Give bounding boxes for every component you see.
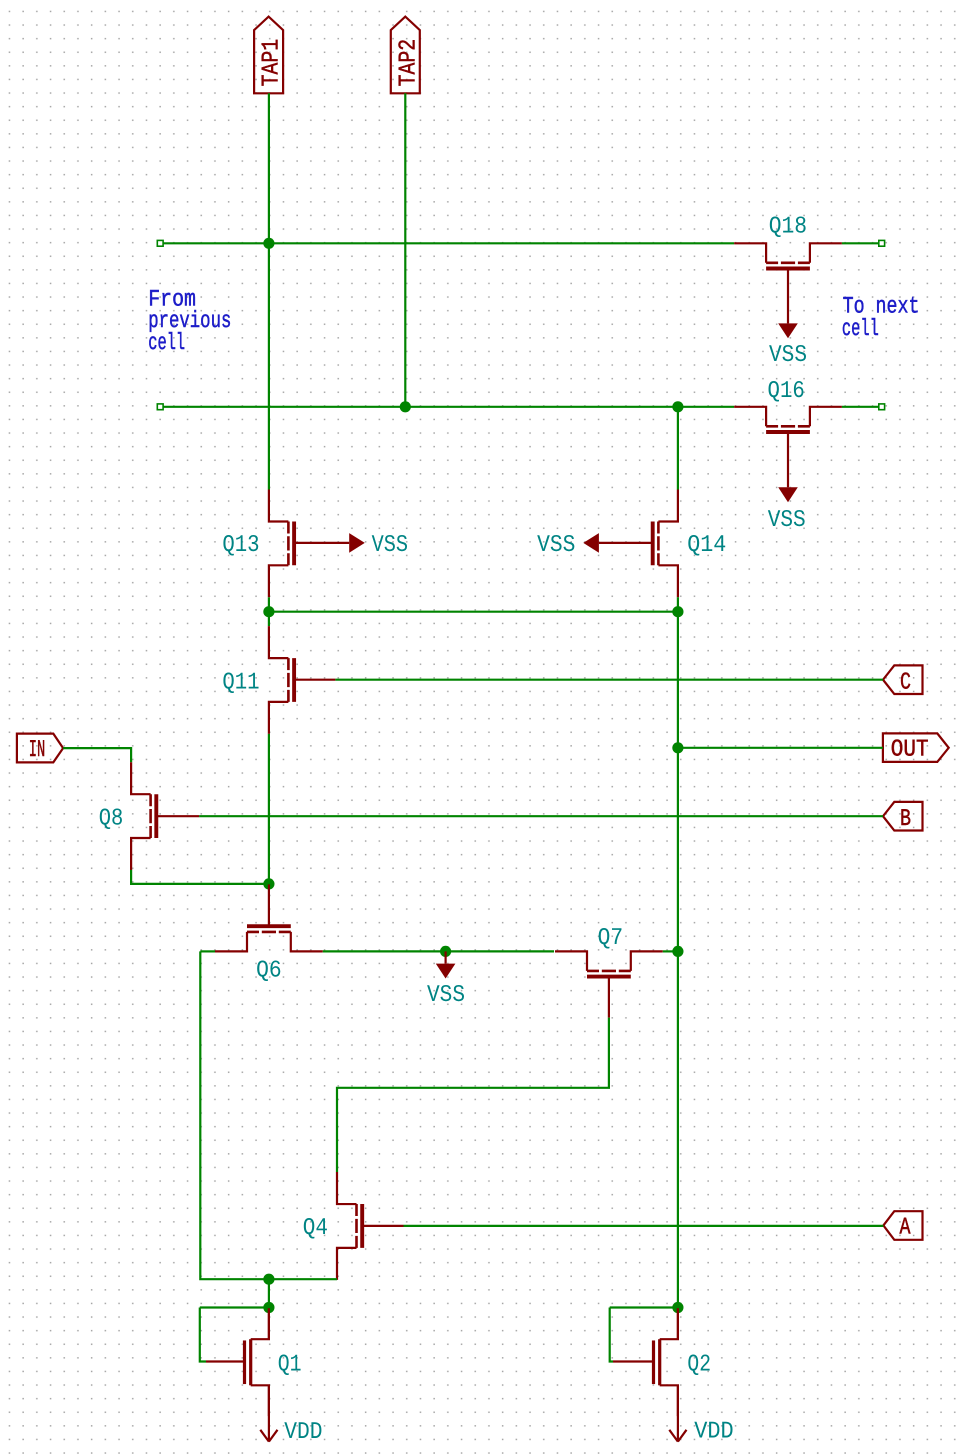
- wire TAP1 to row A: [268, 93, 270, 243]
- port TAP1: [254, 17, 286, 94]
- junction VSS tap on Q6-Q7 wire: [440, 946, 451, 957]
- drain pin of Q1: [268, 1308, 270, 1339]
- transistor Q2: [654, 1308, 678, 1416]
- unconnected end row B left: [157, 404, 163, 410]
- svg-text:Q2: Q2: [687, 1352, 711, 1379]
- wire Q7 right stub to right column: [663, 950, 678, 952]
- svg-text:VDD: VDD: [694, 1419, 733, 1446]
- svg-text:Q13: Q13: [222, 532, 259, 559]
- power VSS of Q16: [768, 432, 806, 534]
- svg-text:VDD: VDD: [284, 1419, 322, 1446]
- svg-text:A: A: [900, 1215, 911, 1242]
- port TAP2: [391, 17, 423, 94]
- port A: [883, 1211, 922, 1241]
- wire middle wire: [269, 611, 678, 613]
- wire left column Q13 to Q11: [268, 597, 270, 626]
- gate pin of Q7: [608, 977, 610, 1018]
- transistor Q11: [269, 626, 294, 734]
- svg-text:cell: cell: [842, 316, 879, 343]
- junction row B / right column: [672, 401, 683, 412]
- svg-text:IN: IN: [29, 737, 45, 764]
- wire OUT row wire: [678, 747, 883, 749]
- power VDD of Q2: [669, 1385, 733, 1445]
- wire row B right segment: [842, 406, 879, 408]
- junction rail 2 / Q2 drain: [672, 1302, 683, 1313]
- power VSS of Q14: [537, 532, 652, 559]
- gate pin of Q4: [363, 1225, 404, 1227]
- transistor Q7: [555, 951, 663, 976]
- svg-text:VSS: VSS: [372, 532, 408, 559]
- junction Q8 bottom / left column: [263, 878, 274, 889]
- transistor Q18: [734, 243, 842, 268]
- svg-text:TAP1: TAP1: [259, 39, 286, 87]
- wire wire Q6 to Q7: [323, 950, 554, 952]
- svg-text:C: C: [900, 670, 911, 697]
- wire right column row B to Q14: [677, 407, 679, 490]
- svg-text:Q14: Q14: [687, 532, 726, 559]
- wire row A left segment: [163, 242, 734, 244]
- port IN: [17, 734, 63, 764]
- transistor Q4: [337, 1172, 362, 1280]
- junction right/middle wire: [672, 606, 683, 617]
- wire left column row A to Q13: [268, 243, 270, 489]
- wire connector rail1 to rail2: [268, 1279, 270, 1307]
- drain pin of Q2: [677, 1308, 679, 1339]
- wire Q8 gate to port B: [199, 815, 883, 817]
- wire TAP2 to row B: [404, 93, 406, 407]
- svg-text:cell: cell: [148, 330, 185, 357]
- power VSS of Q18: [769, 269, 807, 370]
- junction TAP1/row A: [263, 238, 274, 249]
- svg-text:Q1: Q1: [278, 1351, 302, 1378]
- wire Q4 gate to port A: [404, 1225, 884, 1227]
- wire left column Q11 to Q6 gate: [268, 734, 270, 884]
- wire row A right segment: [842, 242, 879, 244]
- svg-text:Q7: Q7: [598, 925, 624, 952]
- port OUT: [883, 733, 949, 763]
- junction TAP2/row B: [400, 401, 411, 412]
- transistor Q6: [215, 926, 323, 951]
- junction rail 2 / Q1 drain: [263, 1302, 274, 1313]
- junction Q7 row / right column: [672, 946, 683, 957]
- transistor Q1: [245, 1308, 269, 1416]
- svg-text:VSS: VSS: [769, 342, 807, 369]
- wire long left wire Q6 to rail: [200, 951, 337, 1279]
- gate pin of Q2: [613, 1360, 652, 1362]
- svg-text:Q16: Q16: [768, 378, 805, 405]
- unconnected end row B right: [879, 404, 885, 410]
- svg-text:TAP2: TAP2: [395, 39, 422, 87]
- svg-text:B: B: [900, 806, 911, 833]
- svg-text:Q8: Q8: [99, 806, 124, 833]
- note To next cell: [842, 293, 920, 342]
- gate pin of Q11: [294, 679, 335, 681]
- svg-text:Q18: Q18: [769, 214, 807, 241]
- wire row B left segment: [163, 406, 734, 408]
- power VSS below Q6/Q7 wire: [427, 951, 465, 1009]
- wire Q2 gate loop: [610, 1308, 613, 1362]
- wire Q11 gate to port C: [335, 679, 883, 681]
- gate pin of Q6: [268, 884, 270, 926]
- wire Q1 gate rail: [200, 1306, 269, 1308]
- wire Q8 bottom to left column: [131, 870, 269, 884]
- port C: [883, 665, 923, 696]
- port B: [883, 802, 923, 833]
- transistor Q14: [653, 490, 678, 598]
- transistor Q13: [269, 490, 294, 598]
- wire wire Q6 left stub: [200, 950, 215, 952]
- svg-text:OUT: OUT: [891, 737, 929, 764]
- wire Q1 gate loop: [200, 1308, 206, 1362]
- gate pin of Q1: [206, 1360, 243, 1362]
- power VSS of Q13: [294, 532, 408, 559]
- gate pin of Q8: [157, 815, 200, 817]
- svg-text:Q11: Q11: [222, 669, 259, 696]
- wire right column long wire: [677, 597, 679, 1307]
- wire Q7 gate down-left to Q4: [337, 1018, 609, 1173]
- note From previous cell: [148, 286, 231, 357]
- transistor Q16: [734, 407, 842, 432]
- svg-text:Q4: Q4: [303, 1215, 328, 1242]
- svg-text:Q6: Q6: [256, 958, 282, 985]
- unconnected end row A left: [157, 240, 163, 246]
- unconnected end row A right: [879, 240, 885, 246]
- junction OUT row: [672, 742, 683, 753]
- svg-text:VSS: VSS: [537, 532, 575, 559]
- junction rail 1 / left column: [263, 1274, 274, 1285]
- junction left/middle wire: [263, 606, 274, 617]
- svg-text:VSS: VSS: [768, 507, 806, 534]
- wire Q2 gate rail: [610, 1306, 678, 1308]
- svg-text:VSS: VSS: [427, 982, 465, 1009]
- power VDD of Q1: [260, 1385, 322, 1446]
- wire IN to Q8: [63, 748, 131, 762]
- transistor Q8: [131, 762, 156, 870]
